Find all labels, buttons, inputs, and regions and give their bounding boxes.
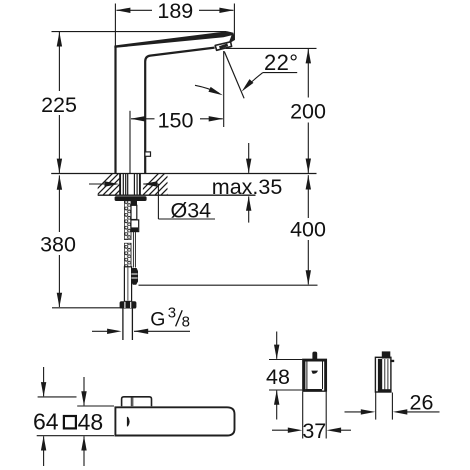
countertop deck top line	[51, 173, 316, 175]
spout tip face	[229, 34, 235, 42]
top view: faucet body	[115, 397, 234, 436]
svg-text:64: 64	[33, 408, 59, 434]
dimension 26 (control box side)	[345, 393, 440, 420]
svg-text:8: 8	[182, 313, 190, 330]
dimension 48 (control box)	[269, 332, 302, 420]
svg-text:22°: 22°	[264, 50, 298, 75]
G 3/8 thread label	[92, 330, 190, 332]
svg-text:48: 48	[266, 365, 290, 389]
22 degree angle arc left with arrow	[195, 85, 219, 93]
svg-text:max.35: max.35	[212, 175, 283, 199]
svg-text:26: 26	[410, 390, 434, 414]
dimension 37 (control box)	[272, 392, 351, 439]
dimension 200	[226, 48, 317, 172]
svg-text:150: 150	[158, 108, 194, 132]
control box side view	[375, 351, 394, 392]
aerator at spout tip	[215, 42, 231, 51]
top view: sensor dot	[127, 417, 130, 427]
deck hatching left	[90, 172, 144, 196]
svg-text:189: 189	[157, 0, 193, 23]
faucet shank through deck	[120, 174, 140, 196]
dimension 150	[130, 51, 224, 173]
dimension 225	[52, 32, 227, 173]
dimension 400	[139, 175, 318, 285]
dimension 189	[115, 4, 234, 46]
22 degree water stream line	[224, 52, 244, 99]
dimension 380	[52, 175, 124, 307]
mounting nut under deck	[115, 196, 147, 201]
svg-text:37: 37	[302, 419, 326, 443]
svg-text:200: 200	[290, 99, 326, 123]
deck bottom line	[98, 194, 256, 196]
svg-text:Ø34: Ø34	[171, 198, 212, 222]
deck hatching right	[136, 172, 190, 196]
braided supply hose	[124, 201, 131, 302]
G3/8 connection pipe	[123, 309, 132, 341]
faucet top edge (wedge)	[114, 31, 233, 48]
svg-text:380: 380	[40, 232, 76, 256]
dimension max.35	[248, 143, 250, 223]
faucet body outline	[116, 46, 215, 173]
diameter 34 callout	[89, 184, 215, 219]
svg-text:225: 225	[41, 93, 77, 117]
top view: dimension 64 and 48	[37, 367, 114, 466]
control box front view	[303, 352, 327, 392]
svg-text:G: G	[150, 309, 165, 331]
sensor tick on faucet side	[145, 152, 151, 156]
svg-text:48: 48	[78, 409, 104, 435]
sensor cable plug	[131, 268, 138, 285]
threaded mounting rod with sleeve	[131, 200, 139, 267]
svg-text:400: 400	[290, 217, 326, 241]
svg-text:3: 3	[168, 305, 176, 322]
hose end nut	[120, 301, 137, 308]
